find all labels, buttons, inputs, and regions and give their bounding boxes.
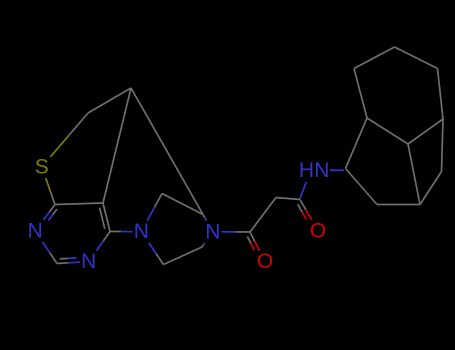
svg-text:O: O: [310, 220, 326, 243]
wire cage internal V2-C10: [367, 118, 408, 144]
wire NH-cage bond (blue): [330, 169, 344, 171]
wire cage apex-Vb: [395, 47, 438, 69]
wire piperazine C2-C3: [162, 194, 203, 215]
wire N3-C4: [97, 232, 111, 251]
wire Cb-NH amide bond: [300, 182, 306, 199]
wire cage Vb-V3: [438, 69, 444, 120]
wire N1-C2: [43, 242, 57, 264]
wire C2t-C3t: [88, 88, 131, 113]
wire C3t-C3a fused steep bond: [103, 88, 131, 203]
wire N4p-Ca amide: [222, 231, 250, 233]
svg-text:N: N: [314, 159, 329, 182]
wire piperazine N4-C5: [202, 243, 205, 247]
wire Ca=Oa carbonyl: [247, 232, 259, 251]
wire S-C7a: [46, 178, 55, 205]
wire cage internal V3-C10: [408, 119, 443, 144]
wire cage V2-Va: [354, 69, 367, 119]
wire C4a-C7a fusion bond: [55, 203, 103, 205]
wire piperazine C6-N1: [149, 243, 164, 265]
wire Ca-CH2: [250, 198, 276, 233]
wire Cb=Ob carbonyl: [298, 200, 312, 221]
wire cage V6-V1: [346, 169, 378, 205]
wire piperazine C3-N4: [203, 215, 207, 221]
wire piperazine C5-C6: [164, 247, 203, 265]
wire C7a=N1 double: [43, 205, 57, 221]
svg-text:N: N: [205, 220, 220, 243]
svg-text:N: N: [134, 220, 149, 243]
wire cage internal V5-C10: [408, 144, 420, 205]
wire cage V4-V5: [420, 172, 442, 205]
wire C4=C4a double: [100, 203, 110, 232]
wire piperazine N1-C2: [147, 194, 162, 221]
wire cage V3-V4: [442, 119, 444, 172]
wire CH2-Cb: [276, 198, 300, 200]
wire C2=N3 double: [57, 258, 80, 264]
svg-text:S: S: [35, 155, 49, 178]
wire cage V1-V2: [346, 118, 368, 169]
wire C4-N1p: [110, 231, 133, 233]
svg-text:N: N: [28, 220, 43, 243]
svg-text:H: H: [299, 159, 314, 182]
svg-text:O: O: [257, 250, 273, 273]
svg-text:N: N: [81, 250, 96, 273]
wire cage V5-V6: [377, 204, 420, 206]
wire C3t-C3p long bridge bond: [131, 88, 203, 215]
wire cage Va-apex: [354, 47, 395, 69]
wire S-C2t thiophene: [50, 113, 88, 157]
